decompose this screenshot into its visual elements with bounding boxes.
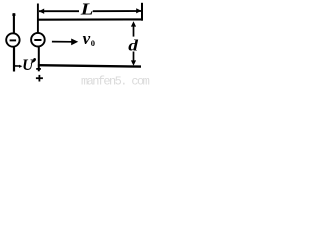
source 2 minus sign	[34, 39, 41, 41]
stub arrowhead	[19, 65, 22, 68]
d dimension upper shaft	[133, 26, 135, 37]
svg-text:v: v	[83, 29, 91, 48]
svg-text:manfen5. com: manfen5. com	[81, 75, 150, 88]
dimension L shaft right segment	[93, 10, 141, 12]
svg-text:d: d	[128, 36, 138, 54]
dimension L left arrowhead	[39, 9, 44, 14]
svg-text:0: 0	[91, 38, 95, 48]
wire source2 bottom	[38, 47, 40, 72]
v0 arrowhead	[71, 39, 78, 46]
plus sign	[36, 77, 43, 79]
bottom plate / wire	[38, 65, 141, 66]
wire source1 top	[13, 13, 15, 33]
d dimension lower shaft	[133, 52, 135, 61]
wire foot at source2 bottom	[36, 68, 41, 70]
dimension L left extension bar / wire to source 2 top	[37, 4, 39, 34]
source 1 minus sign	[10, 39, 17, 41]
source 1 circle	[6, 33, 19, 46]
prime mark after U	[30, 58, 36, 64]
wire stub from source1 bottom	[15, 65, 20, 67]
wire source1 bottom	[13, 47, 15, 72]
dimension L right arrowhead	[136, 8, 141, 13]
dimension L shaft left segment	[39, 10, 79, 12]
dimension L right extension bar	[141, 3, 143, 21]
top plate	[37, 18, 143, 20]
d dimension lower arrowhead	[131, 60, 136, 65]
svg-text:U: U	[22, 57, 34, 74]
source 2 circle	[31, 33, 45, 47]
svg-text:L: L	[80, 0, 94, 19]
v0 arrow shaft	[52, 41, 72, 43]
d dimension upper arrowhead	[131, 21, 136, 26]
